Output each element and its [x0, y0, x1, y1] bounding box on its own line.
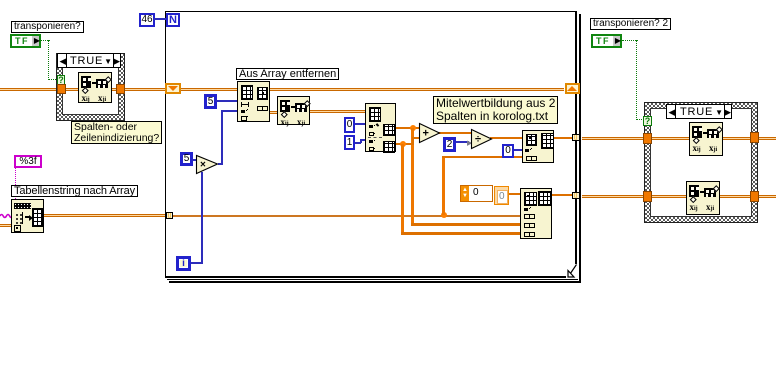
array constant (orange)	[460, 185, 493, 202]
wire: insert node output to right tunnel	[553, 137, 573, 139]
wire: build node output to right tunnel	[551, 194, 573, 196]
case 1 left tunnel	[57, 84, 66, 94]
label Spalten- oder Zeilenindizierung?	[71, 121, 162, 144]
wire: 2D array wire string-node output to build-array (through loop tunnel)	[44, 214, 168, 217]
wire: add output to divide	[438, 132, 473, 134]
case 1 selector TRUE	[57, 53, 121, 68]
wire: multiply out up to delete node	[218, 163, 223, 165]
boolean TF constant 2	[591, 34, 622, 48]
iteration terminal i	[176, 256, 191, 271]
case structure 2 border	[644, 102, 758, 223]
label Tabellenstring nach Array	[11, 185, 138, 197]
index array node	[365, 103, 396, 152]
wire: vertical branch row1 down	[401, 144, 404, 233]
constant 5 upper	[204, 94, 217, 109]
constant 1 (row index)	[344, 135, 355, 150]
label Mitelwertbildung	[433, 96, 558, 124]
right shift register (up arrow)	[565, 83, 580, 94]
case 1 selector terminal ?	[57, 75, 65, 85]
for loop border thickening right	[575, 11, 576, 277]
wire: index row0 output to add node	[395, 127, 421, 129]
wire: 2 to divide	[456, 141, 469, 143]
wire: 2D wire loop to case2 upper	[582, 137, 776, 140]
for loop grow fold	[566, 264, 577, 278]
label Aus Array entfernen	[236, 68, 339, 80]
insert into array node	[522, 130, 554, 163]
wire: 46 to N	[154, 18, 166, 20]
build array node	[520, 188, 552, 239]
wire: i to multiply (up)	[191, 262, 203, 264]
constant 2	[443, 137, 456, 152]
wire: solid array wire tunnel to build array	[172, 215, 521, 218]
transpose 2D array node in loop	[277, 96, 310, 125]
wire: divide output to insert-array node	[490, 137, 523, 139]
wire: pink dotted %3f to string node	[15, 168, 16, 199]
case 2 selector TRUE	[666, 104, 732, 119]
wire: row1 step up into add node	[412, 138, 414, 145]
delete from array node	[237, 81, 270, 122]
wire: 0 to index array	[355, 123, 366, 125]
wire: 2D array-type input to string node bottom	[0, 224, 12, 227]
label transponieren? 2	[590, 18, 671, 30]
wire: horizontal into insert node bottom input	[442, 156, 523, 158]
wire: horizontal to build-array input 4	[401, 232, 521, 235]
loop left tunnel	[166, 212, 173, 219]
constant 5 lower	[180, 152, 193, 166]
wire: 5 to multiply	[192, 159, 197, 161]
label transponieren?	[11, 21, 84, 33]
wire: green dotted TF2 to case2 selector	[622, 40, 638, 41]
boolean TF constant 1	[10, 34, 41, 48]
node C junction dot on tunnel wire	[441, 212, 447, 218]
wire: pink squiggle string input	[0, 212, 13, 220]
for loop shadow bottom 1	[167, 279, 578, 280]
svg-text:÷: ÷	[475, 134, 481, 146]
wire: horizontal to build-array input 3	[411, 223, 521, 226]
for loop N frame	[165, 11, 577, 278]
wire: transpose to index-array	[306, 110, 366, 113]
wire: vertical branch row0 down	[411, 128, 414, 224]
left shift register (down arrow)	[165, 83, 181, 94]
transpose 2D array icon case2 lower	[686, 181, 720, 215]
wire: array constant to build node	[509, 193, 522, 195]
node B junction dot on row1 wire	[400, 141, 406, 147]
case 1 right tunnel	[116, 84, 125, 94]
case 2 right tunnel lower	[750, 191, 759, 202]
loop count terminal N	[166, 13, 180, 27]
for loop shadow right	[579, 14, 581, 283]
for loop border thickening bottom	[165, 276, 576, 277]
array constant element box	[494, 186, 509, 205]
wire: 2D wire loop to case2 lower	[582, 195, 776, 198]
add node	[418, 122, 442, 146]
constant 0 (row index)	[344, 117, 355, 133]
transpose 2D array icon case2 upper	[689, 122, 723, 156]
case structure 1 border	[56, 53, 125, 121]
loop right tunnel lower	[572, 192, 580, 199]
wire: 1 to index array	[355, 142, 361, 144]
wire: index row1 output	[395, 143, 414, 145]
label %3f string constant	[14, 155, 42, 168]
wire: main 2D array wire across top	[0, 88, 564, 91]
transpose 2D array icon in case1	[78, 72, 112, 103]
node A junction dot on row0 wire	[410, 125, 416, 131]
svg-text:×: ×	[200, 160, 206, 171]
wire: delete-from-array to transpose	[266, 111, 278, 114]
multiply node	[195, 154, 221, 176]
case 2 selector terminal ?	[643, 116, 652, 126]
for loop shadow bottom 2	[169, 281, 581, 283]
wire: 2D wire inside case1	[63, 88, 117, 91]
svg-text:+: +	[423, 128, 429, 140]
case 2 left tunnel upper	[643, 133, 652, 144]
divide node	[470, 128, 494, 151]
loop right tunnel upper	[572, 134, 580, 141]
case 2 left tunnel lower	[643, 191, 652, 202]
wire: 2D wires inside case2	[650, 137, 751, 140]
spreadsheet string to array node	[11, 199, 44, 233]
constant 0 (insert index)	[502, 144, 514, 158]
wire: vertical branch up to insert node	[442, 157, 445, 215]
wire: 5 to delete node	[216, 100, 238, 102]
case 2 right tunnel upper	[750, 132, 759, 143]
wire: green dotted TF1 to case1 selector	[41, 40, 50, 41]
wire: 0 to insert node	[514, 149, 523, 151]
constant 46	[139, 13, 155, 27]
